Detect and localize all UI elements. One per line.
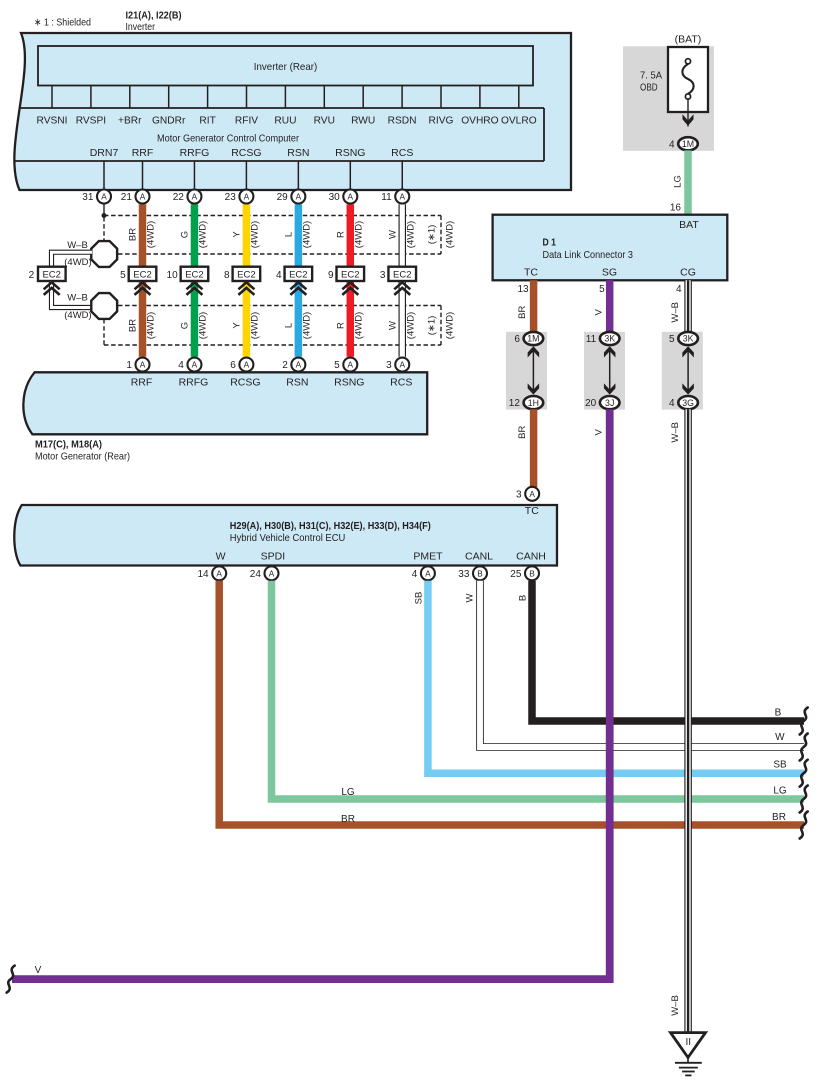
pin 14(A) <box>212 566 226 580</box>
connector pair 5(3K) / 4(3G) <box>687 350 689 392</box>
svg-text:23: 23 <box>225 192 237 203</box>
svg-text:A: A <box>399 192 405 202</box>
svg-text:A: A <box>296 360 302 370</box>
fuse 7.5A OBD <box>668 47 708 112</box>
svg-text:BR: BR <box>128 228 139 241</box>
wire BR (W pin 14) <box>219 581 804 825</box>
connector EC2 pin 10 <box>181 267 209 281</box>
svg-text:Y: Y <box>231 231 242 238</box>
pin 4(A) <box>421 566 435 580</box>
svg-text:GNDRr: GNDRr <box>152 115 186 126</box>
pin 4(A) RRFG <box>187 358 201 372</box>
pin tick row 2 <box>103 161 105 189</box>
svg-text:3J: 3J <box>605 398 614 408</box>
svg-text:22: 22 <box>173 192 185 203</box>
svg-text:RRFG: RRFG <box>180 147 210 159</box>
svg-text:(4WD): (4WD) <box>445 221 456 248</box>
pin 21(A) RRF <box>136 190 150 204</box>
svg-text:BR: BR <box>128 319 139 332</box>
svg-text:Y: Y <box>231 322 242 329</box>
svg-text:RSNG: RSNG <box>335 147 365 159</box>
wire LG (SPDI) <box>272 581 805 799</box>
pin 30(A) RSNG <box>343 190 357 204</box>
svg-text:L: L <box>283 323 294 328</box>
pin 1(A) RRF <box>136 358 150 372</box>
wire G (RRFG) <box>191 204 199 356</box>
svg-text:25: 25 <box>510 569 522 580</box>
svg-text:V: V <box>594 308 605 315</box>
svg-text:1M: 1M <box>527 334 539 344</box>
svg-text:RSDN: RSDN <box>388 115 417 126</box>
svg-text:3: 3 <box>380 270 386 281</box>
svg-text:RFIV: RFIV <box>235 115 258 126</box>
svg-text:A: A <box>216 568 222 578</box>
wire BR (TC) upper <box>530 280 538 334</box>
svg-text:SB: SB <box>414 592 425 605</box>
svg-text:4: 4 <box>669 139 675 150</box>
fuse block background <box>623 46 714 151</box>
svg-text:33: 33 <box>458 569 470 580</box>
svg-text:1: 1 <box>126 360 132 371</box>
svg-text:RCSG: RCSG <box>231 147 261 159</box>
pin 11(A) RCS <box>395 190 409 204</box>
chevron arrow EC2 pin 9 <box>342 282 358 289</box>
svg-text:R: R <box>335 322 346 329</box>
svg-text:(4WD): (4WD) <box>198 221 209 248</box>
svg-text:EC2: EC2 <box>133 270 151 281</box>
svg-text:(4WD): (4WD) <box>302 221 313 248</box>
shield box lower (4WD) <box>118 305 441 307</box>
svg-text:2: 2 <box>29 270 35 281</box>
svg-text:4: 4 <box>676 284 682 295</box>
svg-text:3G: 3G <box>682 398 694 408</box>
svg-text:A: A <box>140 360 146 370</box>
svg-text:RCS: RCS <box>390 377 412 389</box>
svg-text:RUU: RUU <box>274 115 296 126</box>
svg-text:A: A <box>348 360 354 370</box>
svg-text:2: 2 <box>282 360 288 371</box>
chevron arrow EC2 pin 2 <box>44 282 60 289</box>
svg-text:Motor Generator (Rear): Motor Generator (Rear) <box>35 450 130 462</box>
svg-text:11: 11 <box>381 192 392 203</box>
wire LG (BAT feed) <box>684 150 692 215</box>
svg-text:RVU: RVU <box>314 115 335 126</box>
chevron arrow EC2 pin 3 <box>394 282 410 289</box>
svg-text:5: 5 <box>599 284 605 295</box>
connector EC2 pin 4 <box>285 267 313 281</box>
inverter (rear) inner box <box>38 46 533 86</box>
pin 3(A) RCS <box>395 358 409 372</box>
svg-text:4: 4 <box>178 360 184 371</box>
svg-text:(4WD): (4WD) <box>198 312 209 339</box>
svg-text:DRN7: DRN7 <box>90 147 119 159</box>
svg-text:A: A <box>348 192 354 202</box>
break squiggles right edge <box>800 708 808 735</box>
pin 2(A) RSN <box>291 358 305 372</box>
svg-text:Inverter: Inverter <box>126 21 156 33</box>
svg-text:RCS: RCS <box>391 147 413 159</box>
motor generator (rear) box M17(C), M18(A) <box>23 372 427 434</box>
wire R (RSNG) <box>347 204 355 356</box>
svg-text:RVSPI: RVSPI <box>76 115 106 126</box>
svg-text:A: A <box>529 489 535 499</box>
wire BR (TC) lower <box>530 409 538 487</box>
arrow fuse to connector 1M <box>687 99 689 127</box>
svg-text:CG: CG <box>680 267 696 279</box>
connector EC2 pin 2 <box>38 267 66 281</box>
svg-text:6: 6 <box>230 360 236 371</box>
svg-text:+BRr: +BRr <box>118 115 142 126</box>
svg-text:5: 5 <box>334 360 340 371</box>
svg-text:W: W <box>387 230 398 239</box>
svg-text:W–B: W–B <box>670 995 681 1016</box>
svg-text:A: A <box>425 568 431 578</box>
svg-text:14: 14 <box>197 569 209 580</box>
svg-text:RSN: RSN <box>286 377 308 389</box>
svg-text:4: 4 <box>276 270 282 281</box>
svg-text:13: 13 <box>517 284 529 295</box>
wire L (RSN) <box>295 204 303 356</box>
svg-text:∗ 1 : Shielded: ∗ 1 : Shielded <box>34 17 91 29</box>
svg-text:RRFG: RRFG <box>179 377 209 389</box>
svg-text:BR: BR <box>341 814 355 825</box>
chevron arrow EC2 pin 5 <box>135 282 151 289</box>
svg-text:3K: 3K <box>683 334 694 344</box>
svg-text:W–B: W–B <box>670 422 681 443</box>
svg-text:(4WD): (4WD) <box>354 312 365 339</box>
svg-text:(4WD): (4WD) <box>250 221 261 248</box>
svg-text:3K: 3K <box>604 334 615 344</box>
svg-text:BR: BR <box>517 426 528 439</box>
svg-text:OVHRO: OVHRO <box>461 115 498 126</box>
svg-text:A: A <box>399 360 405 370</box>
svg-text:RIVG: RIVG <box>429 115 454 126</box>
svg-text:(4WD): (4WD) <box>302 312 313 339</box>
svg-text:RSN: RSN <box>287 147 309 159</box>
svg-text:EC2: EC2 <box>289 270 307 281</box>
svg-text:LG: LG <box>672 175 683 188</box>
svg-text:(∗1): (∗1) <box>427 316 438 336</box>
svg-text:A: A <box>101 192 107 202</box>
pin 5(A) RSNG <box>343 358 357 372</box>
svg-text:9: 9 <box>328 270 334 281</box>
ground symbol II <box>671 1033 706 1058</box>
svg-text:Data Link Connector 3: Data Link Connector 3 <box>543 249 634 261</box>
wire Y (RCSG) <box>243 204 251 356</box>
svg-text:OVLRO: OVLRO <box>501 115 537 126</box>
svg-text:RVSNI: RVSNI <box>37 115 68 126</box>
svg-text:3: 3 <box>516 489 522 500</box>
wire SB (PMET) <box>428 581 804 773</box>
svg-text:A: A <box>296 192 302 202</box>
wire B (CANH) <box>532 581 804 721</box>
pin 31(A) DRN7 <box>97 190 111 204</box>
svg-text:W–B: W–B <box>67 240 88 251</box>
svg-text:31: 31 <box>82 192 94 203</box>
svg-text:24: 24 <box>250 569 262 580</box>
svg-text:SG: SG <box>602 267 617 279</box>
svg-text:EC2: EC2 <box>237 270 255 281</box>
pin 23(A) RCSG <box>239 190 253 204</box>
pin 29(A) RSN <box>291 190 305 204</box>
svg-text:V: V <box>594 428 605 435</box>
svg-text:A: A <box>140 192 146 202</box>
pin 33(B) <box>473 566 487 580</box>
svg-text:W: W <box>216 551 226 563</box>
svg-text:A: A <box>192 192 198 202</box>
pin tick row 1 <box>51 86 53 109</box>
connector pair background TC <box>506 332 547 410</box>
svg-text:(4WD): (4WD) <box>64 310 91 321</box>
svg-text:BR: BR <box>772 812 786 823</box>
svg-text:20: 20 <box>585 398 597 409</box>
svg-text:1H: 1H <box>528 398 539 408</box>
break squiggle left edge <box>7 966 15 993</box>
svg-text:RSNG: RSNG <box>334 377 364 389</box>
chevron arrow EC2 pin 4 <box>290 282 306 289</box>
pin 6(A) RCSG <box>239 358 253 372</box>
svg-text:B: B <box>775 708 782 719</box>
svg-text:G: G <box>179 322 190 329</box>
svg-text:A: A <box>244 192 250 202</box>
svg-text:BAT: BAT <box>679 219 699 231</box>
svg-text:A: A <box>244 360 250 370</box>
svg-text:A: A <box>269 568 275 578</box>
connector EC2 pin 5 <box>129 267 157 281</box>
connector D1 Data Link Connector 3 <box>493 215 728 281</box>
connector EC2 pin 8 <box>233 267 261 281</box>
svg-text:B: B <box>477 568 483 578</box>
svg-text:6: 6 <box>514 334 520 345</box>
wire W-B (CG) upper <box>684 280 692 334</box>
inner box 2 <box>20 107 544 109</box>
svg-text:B: B <box>529 568 535 578</box>
svg-text:Hybrid Vehicle Control ECU: Hybrid Vehicle Control ECU <box>230 533 345 544</box>
wire W-B (CG) to ground <box>684 409 692 1032</box>
svg-text:29: 29 <box>277 192 289 203</box>
chevron arrow EC2 pin 10 <box>186 282 202 289</box>
svg-text:G: G <box>179 231 190 238</box>
svg-text:(∗1): (∗1) <box>427 225 438 245</box>
svg-text:4: 4 <box>412 569 418 580</box>
svg-text:B: B <box>518 595 529 601</box>
svg-text:L: L <box>283 232 294 237</box>
svg-text:11: 11 <box>586 334 597 345</box>
svg-text:Motor Generator Control Comput: Motor Generator Control Computer <box>157 133 299 145</box>
connector EC2 pin 9 <box>337 267 365 281</box>
shield ground octagon lower <box>91 293 117 319</box>
svg-text:CANH: CANH <box>516 551 546 563</box>
svg-text:21: 21 <box>121 192 133 203</box>
wire W (RCS) <box>399 204 407 356</box>
svg-text:V: V <box>35 965 42 976</box>
svg-text:(4WD): (4WD) <box>405 312 416 339</box>
svg-text:W–B: W–B <box>670 302 681 323</box>
svg-text:4: 4 <box>669 398 675 409</box>
svg-text:LG: LG <box>341 787 355 798</box>
svg-text:PMET: PMET <box>413 551 443 563</box>
shield box upper (4WD) <box>104 215 441 217</box>
svg-text:EC2: EC2 <box>341 270 359 281</box>
svg-text:H29(A), H30(B), H31(C), H32(E): H29(A), H30(B), H31(C), H32(E), H33(D), … <box>230 521 431 532</box>
wire W (CANL) <box>480 581 804 747</box>
svg-text:8: 8 <box>224 270 230 281</box>
connector 4(1M) <box>678 137 698 150</box>
inverter box (Motor Generator Control Computer) <box>14 33 571 190</box>
svg-text:Inverter (Rear): Inverter (Rear) <box>254 61 318 73</box>
svg-text:RRF: RRF <box>132 147 154 159</box>
svg-text:5: 5 <box>669 334 675 345</box>
connector pair 11(3K) / 20(3J) <box>609 350 611 392</box>
svg-text:RRF: RRF <box>131 377 153 389</box>
svg-text:EC2: EC2 <box>393 270 411 281</box>
hybrid vehicle control ECU box <box>14 505 557 566</box>
svg-text:RWU: RWU <box>351 115 375 126</box>
svg-text:II: II <box>686 1037 692 1048</box>
pin 25(B) <box>525 566 539 580</box>
svg-text:30: 30 <box>329 192 341 203</box>
connector pair 6(1M) / 12(1H) <box>532 350 534 392</box>
pin 3(A) TC <box>525 487 539 501</box>
shield ground octagon upper <box>91 241 117 267</box>
svg-text:5: 5 <box>120 270 126 281</box>
svg-text:(4WD): (4WD) <box>445 312 456 339</box>
wire V (SG) upper <box>606 280 614 334</box>
wire W-B lower bracket <box>52 282 93 308</box>
svg-text:3: 3 <box>386 360 392 371</box>
pin 24(A) <box>265 566 279 580</box>
svg-text:EC2: EC2 <box>42 270 60 281</box>
chevron arrow EC2 pin 8 <box>238 282 254 289</box>
connector EC2 pin 3 <box>388 267 416 281</box>
svg-text:RIT: RIT <box>199 115 215 126</box>
svg-text:W: W <box>465 593 476 602</box>
svg-text:(4WD): (4WD) <box>146 312 157 339</box>
svg-text:RCSG: RCSG <box>230 377 260 389</box>
svg-text:(4WD): (4WD) <box>64 257 91 268</box>
svg-text:(4WD): (4WD) <box>405 221 416 248</box>
svg-text:W: W <box>387 321 398 330</box>
svg-text:1M: 1M <box>682 139 694 149</box>
svg-text:A: A <box>192 360 198 370</box>
wire V (SG) long run <box>12 409 610 979</box>
svg-text:TC: TC <box>524 267 538 279</box>
wire DRN7 to shield <box>103 204 105 215</box>
wire BR (RRF) <box>139 204 147 356</box>
svg-text:EC2: EC2 <box>185 270 203 281</box>
svg-text:R: R <box>335 231 346 238</box>
svg-text:LG: LG <box>773 786 787 797</box>
svg-text:I21(A), I22(B): I21(A), I22(B) <box>126 10 182 22</box>
svg-text:W: W <box>775 732 785 743</box>
svg-text:SB: SB <box>773 760 787 771</box>
svg-text:7. 5A: 7. 5A <box>640 70 662 82</box>
svg-text:D 1: D 1 <box>543 236 557 248</box>
junction dot DRN7/shield <box>102 213 107 218</box>
svg-text:(4WD): (4WD) <box>354 221 365 248</box>
wire W-B upper bracket <box>52 252 93 266</box>
svg-text:SPDI: SPDI <box>261 551 286 563</box>
svg-text:(BAT): (BAT) <box>675 33 702 45</box>
pin 22(A) RRFG <box>187 190 201 204</box>
svg-text:10: 10 <box>167 270 179 281</box>
connector pair background SG <box>584 332 625 410</box>
svg-text:CANL: CANL <box>465 551 493 563</box>
svg-text:(4WD): (4WD) <box>250 312 261 339</box>
svg-text:(4WD): (4WD) <box>146 221 157 248</box>
connector pair background CG <box>662 332 703 410</box>
svg-text:12: 12 <box>509 398 521 409</box>
svg-text:W–B: W–B <box>67 292 88 303</box>
svg-text:OBD: OBD <box>640 81 658 93</box>
svg-text:BR: BR <box>517 306 528 319</box>
svg-text:16: 16 <box>670 202 682 213</box>
svg-text:TC: TC <box>525 505 539 517</box>
svg-text:M17(C), M18(A): M17(C), M18(A) <box>35 439 102 451</box>
